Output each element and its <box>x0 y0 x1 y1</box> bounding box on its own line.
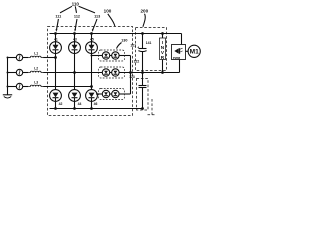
wire col1 mid <box>55 53 57 90</box>
mid DC return rail <box>119 72 180 74</box>
inductor L3 <box>28 85 43 86</box>
diode 46 <box>86 90 98 102</box>
gate arrow 112 <box>75 19 77 30</box>
lower capacitor 142 <box>142 73 144 86</box>
node dot aux rail / mid rail <box>129 71 132 74</box>
node dot phase C col3 <box>90 85 93 88</box>
node dot bus col3 <box>90 32 93 35</box>
wire col2 mid <box>74 53 76 90</box>
svg-text:130: 130 <box>121 39 127 43</box>
aux right rail <box>130 56 132 95</box>
inductor L1 <box>28 56 43 57</box>
node dot bottom col3 <box>90 107 93 110</box>
node dot phase A col1 <box>54 56 57 59</box>
svg-text:PWM: PWM <box>173 56 181 60</box>
svg-text:100: 100 <box>104 9 112 14</box>
svg-text:113: 113 <box>94 15 100 19</box>
node dot bus at load box <box>161 32 164 35</box>
ground <box>3 94 12 96</box>
diode 44 <box>69 90 81 102</box>
svg-text:L3: L3 <box>34 80 38 84</box>
phase B wire <box>43 72 102 74</box>
motor M1 <box>188 45 200 57</box>
left source bus <box>7 58 9 95</box>
node dot phase A left <box>7 57 9 59</box>
node dot aux row1 at col3 <box>91 55 93 57</box>
inductor L2 <box>28 71 43 72</box>
node dot phase C left <box>7 86 9 88</box>
AC source VA <box>8 57 17 59</box>
fan line to 112 <box>75 6 76 13</box>
AC source VB <box>8 72 17 74</box>
svg-text:46: 46 <box>94 102 98 106</box>
node dot phase B left <box>7 72 9 74</box>
svg-text:44: 44 <box>78 102 82 106</box>
gate arrow 113 <box>93 19 97 30</box>
svg-text:45: 45 <box>90 37 94 41</box>
svg-text:121: 121 <box>130 43 136 47</box>
svg-text:42: 42 <box>59 102 63 106</box>
svg-text:L2: L2 <box>34 66 38 70</box>
motor wire <box>186 50 189 52</box>
svg-text:141: 141 <box>146 41 152 45</box>
thyristor 45 <box>91 34 93 42</box>
node dot cap at bottom bus <box>141 107 144 110</box>
DC bus capacitor 141 <box>142 34 144 49</box>
svg-text:122: 122 <box>134 60 140 64</box>
svg-text:112: 112 <box>74 15 80 19</box>
svg-text:L1: L1 <box>34 51 38 55</box>
DC- bottom bridge bus <box>50 108 144 110</box>
svg-text:110: 110 <box>72 2 80 7</box>
node dot bus cap column <box>141 32 144 35</box>
DC-link enclosure box 200 (dashed) <box>136 28 167 71</box>
dashed corner fragment bottom-right <box>148 99 156 115</box>
node dot bus col2 <box>73 32 76 35</box>
inverter bottom stub <box>179 60 181 73</box>
DC+ top bus <box>50 33 182 35</box>
aux pair 123 (dashed module) <box>99 89 125 100</box>
svg-text:41: 41 <box>54 37 58 41</box>
node dot phase B col2 <box>73 71 76 74</box>
rectifier enclosure box 100 (dashed) <box>48 27 133 116</box>
vertical load box (resistor block) <box>162 34 164 39</box>
thyristor 43 <box>74 34 76 42</box>
wire col3 mid <box>91 53 93 90</box>
aux pair 122 (dashed module) <box>99 67 125 78</box>
node dot bottom col1 <box>54 107 57 110</box>
node dot bus col1 <box>54 32 57 35</box>
top bus corner down to inverter <box>181 34 183 45</box>
gate arrow 111 <box>56 19 58 30</box>
AC source VC <box>8 86 17 88</box>
svg-text:M1: M1 <box>190 49 199 56</box>
thyristor 41 <box>55 34 57 42</box>
node dot cap at mid rail <box>141 71 144 74</box>
aux pair 121 (dashed module) <box>99 50 125 61</box>
lower capacitor enclosure box 140 (dashed) <box>137 79 149 111</box>
phase A wire <box>43 57 55 59</box>
svg-text:111: 111 <box>55 15 61 19</box>
phase C wire <box>43 86 91 88</box>
svg-text:43: 43 <box>73 37 77 41</box>
fan line to 113 <box>79 6 95 13</box>
svg-text:+: + <box>137 46 139 50</box>
inverter block <box>172 45 186 60</box>
node dot load box at mid rail <box>161 71 164 74</box>
svg-text:200: 200 <box>140 9 148 14</box>
node dot bottom col2 <box>73 107 76 110</box>
fan line to 111 <box>60 6 72 13</box>
diode 42 <box>50 90 62 102</box>
